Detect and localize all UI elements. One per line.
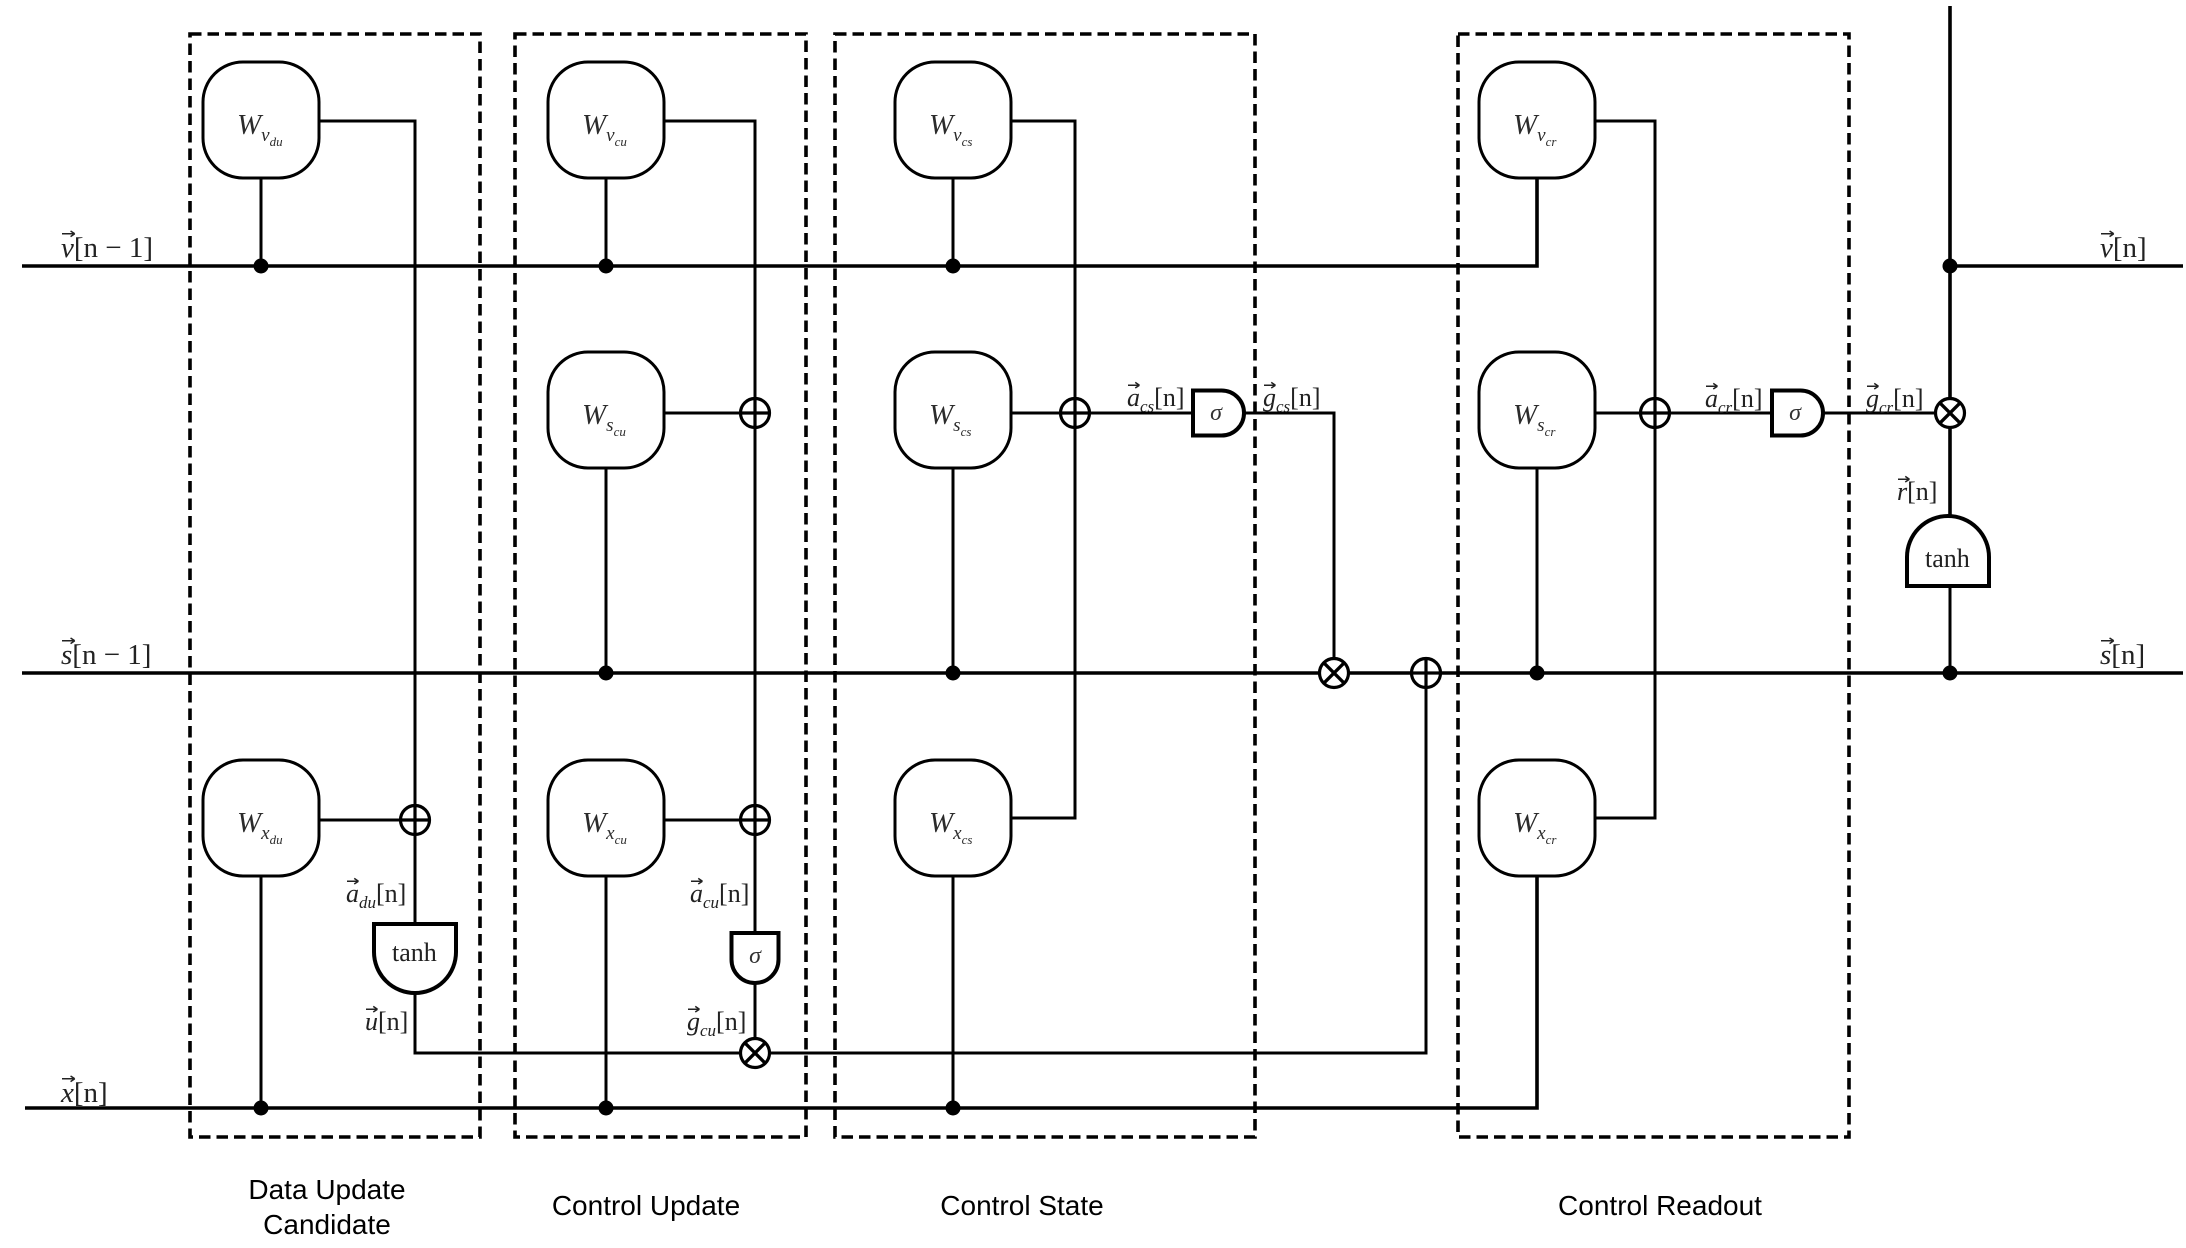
- weight box W_v_du: [203, 62, 319, 178]
- wire W_s_cs out: [1011, 412, 1075, 415]
- label r[n]: [1897, 476, 1937, 506]
- tanh gate (readout r[n]), input bottom / rounded top: [1907, 516, 1989, 586]
- wire W_x_cu input: [605, 876, 608, 1108]
- wire du feed: W_v_du out down to tanh: [319, 121, 415, 924]
- wire W_s_cs input: [952, 468, 955, 673]
- wire right vertical: v[n] feedback down through times and tanh to s[n]: [1948, 6, 1952, 516]
- label s[n-1]: [61, 638, 151, 671]
- wire v[n] output: [1950, 264, 2183, 268]
- svg-text:σ: σ: [749, 943, 762, 969]
- sigma gate (control readout), input left / rounded right: [1772, 391, 1823, 436]
- wire W_x_cu out: [664, 819, 755, 822]
- wire W_s_cr out: [1595, 412, 1655, 415]
- wire W_v_cu input: [605, 178, 608, 266]
- junction dot v bus / v[n]: [1943, 259, 1958, 274]
- label a_du[n]: [346, 878, 406, 912]
- svg-text:σ: σ: [1789, 400, 1802, 426]
- label v[n-1]: [61, 231, 153, 264]
- wire a_cs to sigma: [1075, 412, 1193, 415]
- weight box W_x_cu: [548, 760, 664, 876]
- multiplier (circled times) cs gate on s bus: [1320, 659, 1349, 688]
- wire g_cs: sigma out, down to times on s bus: [1244, 413, 1334, 673]
- junction dot s bus / tanh readout: [1943, 666, 1958, 681]
- tanh gate (data update candidate), input top / rounded bottom: [374, 924, 456, 993]
- svg-text:Data Update: Data Update: [248, 1174, 405, 1205]
- svg-text:r[n]: r[n]: [1897, 477, 1937, 506]
- wire a_cr to sigma: [1655, 412, 1772, 415]
- dashed region box: Data Update Candidate: [190, 34, 480, 1137]
- bus s[n-1] -> s[n]: [22, 671, 2183, 675]
- wire cr feed: W_v_cr out down to W_x_cr out: [1595, 121, 1655, 818]
- wire W_x_du input: [260, 876, 263, 1108]
- wire W_x_cs input: [952, 876, 955, 1108]
- label g_cu[n]: [687, 1006, 746, 1040]
- weight box W_s_cs: [895, 352, 1011, 468]
- junction dot s bus / W_s_cr: [1530, 666, 1545, 681]
- junction dot x bus / W_x_cu: [599, 1101, 614, 1116]
- junction dot v bus / W_v_du: [254, 259, 269, 274]
- label a_cu[n]: [690, 878, 749, 912]
- junction dot x bus / W_x_cs: [946, 1101, 961, 1116]
- wire W_x_du out: [319, 819, 415, 822]
- label x[n]: [60, 1076, 108, 1109]
- wire W_v_cs input: [952, 178, 955, 266]
- wire W_s_cu out: [664, 412, 755, 415]
- weight box W_x_cr: [1479, 760, 1595, 876]
- wire cu sigma out to times: [754, 983, 757, 1053]
- wire W_v_du input: [260, 178, 263, 266]
- svg-text:Control State: Control State: [940, 1190, 1103, 1221]
- dashed region box: Control Readout: [1458, 34, 1849, 1137]
- label g_cr[n]: [1866, 383, 1924, 417]
- junction dot x bus / W_x_du: [254, 1101, 269, 1116]
- junction dot v bus / W_v_cs: [946, 259, 961, 274]
- wire g_cr: sigma out to times on right vertical: [1823, 412, 1950, 415]
- adder (circled plus) cu (after W_s_cu): [741, 399, 770, 428]
- svg-text:Control Readout: Control Readout: [1558, 1190, 1762, 1221]
- sigma gate (control update), input top / rounded bottom: [732, 933, 779, 983]
- svg-text:tanh: tanh: [1925, 544, 1970, 573]
- label v[n]: [2100, 231, 2147, 264]
- adder (circled plus) du (after W_x_du): [401, 806, 430, 835]
- svg-text:s[n − 1]: s[n − 1]: [61, 639, 151, 671]
- adder (circled plus) cr (after W_s_cr): [1641, 399, 1670, 428]
- svg-text:v[n]: v[n]: [2100, 232, 2147, 264]
- bus x[n]: [25, 876, 1537, 1108]
- weight box W_x_du: [203, 760, 319, 876]
- label g_cs[n]: [1263, 382, 1321, 416]
- svg-text:v[n − 1]: v[n − 1]: [61, 232, 153, 264]
- title Data Update Candidate: [248, 1174, 405, 1240]
- svg-text:Candidate: Candidate: [263, 1209, 391, 1240]
- label u[n]: [365, 1006, 408, 1036]
- multiplier (circled times) cu gate (u times g_cu): [741, 1039, 770, 1068]
- svg-text:x[n]: x[n]: [60, 1077, 108, 1109]
- multiplier (circled times) cr gate on v line: [1936, 399, 1965, 428]
- weight box W_x_cs: [895, 760, 1011, 876]
- label a_cr[n]: [1705, 383, 1763, 417]
- adder (circled plus) cs (after W_s_cs): [1061, 399, 1090, 428]
- weight box W_s_cr: [1479, 352, 1595, 468]
- junction dot s bus / W_s_cu: [599, 666, 614, 681]
- sigma gate (control state), input left / rounded right: [1193, 391, 1244, 436]
- wire W_s_cr input: [1536, 468, 1539, 673]
- adder (circled plus) s-bus adder: [1412, 659, 1441, 688]
- svg-text:tanh: tanh: [392, 938, 437, 967]
- svg-text:u[n]: u[n]: [365, 1007, 408, 1036]
- wire cs feed: W_v_cs out down to W_x_cs out: [1011, 121, 1075, 818]
- label s[n]: [2100, 638, 2145, 671]
- label a_cs[n]: [1127, 382, 1185, 416]
- weight box W_v_cs: [895, 62, 1011, 178]
- weight box W_v_cu: [548, 62, 664, 178]
- dashed region box: Control Update: [515, 34, 806, 1137]
- wire u-line (u[n] times g_cu[n] into s adder): [415, 673, 1426, 1053]
- svg-text:s[n]: s[n]: [2100, 639, 2145, 671]
- svg-text:σ: σ: [1210, 400, 1223, 426]
- bus v[n-1] -> v input of Control Readout: [22, 178, 1537, 266]
- weight box W_v_cr: [1479, 62, 1595, 178]
- junction dot s bus / W_s_cs: [946, 666, 961, 681]
- junction dot v bus / W_v_cu: [599, 259, 614, 274]
- wire W_s_cu input: [605, 468, 608, 673]
- adder (circled plus) cu (after W_x_cu): [741, 806, 770, 835]
- svg-text:Control Update: Control Update: [552, 1190, 740, 1221]
- weight box W_s_cu: [548, 352, 664, 468]
- dashed region box: Control State: [835, 34, 1255, 1137]
- wire cu feed: W_v_cu out down to sigma: [664, 121, 755, 933]
